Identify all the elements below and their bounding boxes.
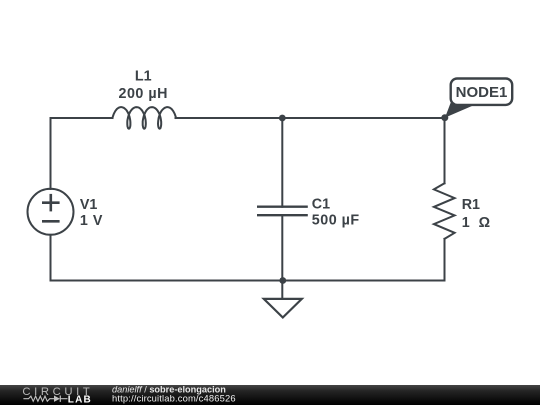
wire right vertical upper (NODE1 to R1)	[444, 118, 446, 183]
V1 plus sign	[43, 195, 58, 210]
resistor R1 zigzag	[434, 183, 455, 239]
logo wire after diode	[60, 398, 67, 400]
junction dot NODE1	[441, 114, 448, 121]
wire top horizontal (L1 to NODE1)	[176, 117, 445, 119]
capacitor C1 plates	[258, 207, 306, 216]
svg-text:R1: R1	[462, 197, 480, 213]
inductor L1	[113, 107, 177, 129]
wire bottom rail	[51, 280, 445, 282]
wire capacitor top stub	[281, 118, 283, 207]
svg-text:http://circuitlab.com/c486526: http://circuitlab.com/c486526	[112, 392, 236, 403]
svg-text:1 Ω: 1 Ω	[462, 215, 493, 231]
ground stub wire	[281, 281, 283, 299]
svg-text:500 µF: 500 µF	[312, 213, 360, 229]
svg-text:C1: C1	[312, 197, 330, 213]
ground symbol triangle	[264, 299, 302, 318]
NODE1 flag tail	[445, 101, 476, 118]
logo wire with resistor	[23, 396, 54, 401]
wire top-left horizontal (V1 top to L1)	[51, 118, 113, 189]
wire left vertical lower (V1 bottom to rail)	[50, 235, 52, 281]
svg-text:1 V: 1 V	[80, 213, 103, 229]
wire capacitor bottom stub	[281, 215, 283, 280]
svg-text:LAB: LAB	[68, 394, 92, 405]
V1 minus sign	[43, 220, 58, 223]
junction dot bottom (ground tap)	[279, 277, 286, 284]
voltage source V1 circle	[28, 189, 74, 235]
svg-text:V1: V1	[80, 197, 98, 213]
svg-text:NODE1: NODE1	[456, 84, 508, 101]
wire right vertical lower (R1 to rail)	[444, 239, 446, 281]
junction dot top (capacitor tap)	[279, 115, 286, 122]
footer bar	[0, 385, 540, 405]
svg-text:L1: L1	[135, 69, 152, 85]
logo diode	[54, 396, 60, 402]
svg-text:200 µH: 200 µH	[119, 86, 168, 102]
NODE1 flag box	[451, 79, 513, 105]
